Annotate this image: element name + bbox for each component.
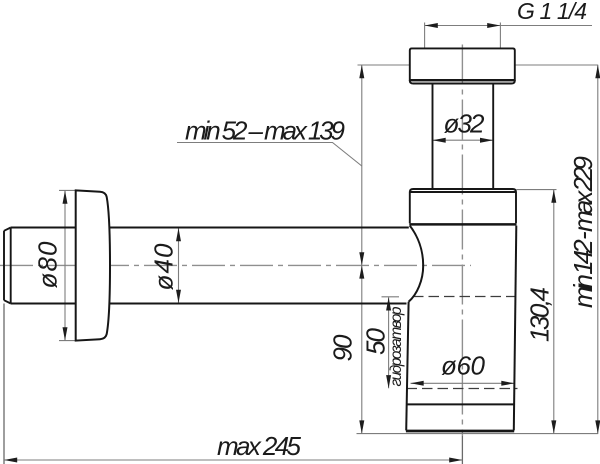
arrow o80 top [63,191,68,204]
dimension o60: line [411,382,515,384]
arrow max245 left [4,458,17,463]
arrow o32 left [433,138,446,143]
arrow G-dim left [425,23,438,28]
svg-text:130,4: 130,4 [525,287,555,342]
hidden inner tube bottom (dashed) [407,388,518,390]
dimension 130,4: extension line top [517,189,557,191]
flange bottom edge thick [409,223,516,226]
dimension 130,4: vertical line [553,190,555,434]
arrow min52 top [359,65,364,78]
hidden water level (dashed) [413,296,516,298]
dimension o80: extension ticks [59,189,76,191]
svg-text:min 142 - max 229: min 142 - max 229 [568,156,598,308]
wall flange (escutcheon) [76,190,110,340]
cup flange [410,189,516,223]
svg-text:90: 90 [328,334,358,362]
arrow max245 right [449,458,462,463]
cup left wall [406,302,408,431]
svg-text:G 1 1/4: G 1 1/4 [517,0,587,24]
svg-text:ø32: ø32 [444,109,486,139]
tube end face [4,228,11,304]
svg-text:ø60: ø60 [441,351,486,381]
dimension min52-max139 / 90: vertical line [361,65,363,434]
arrow min142 top [595,65,600,78]
nut bottom lip [410,80,515,83]
svg-text:min 52 – max 139: min 52 – max 139 [185,116,345,146]
extension line bottom (cup underside) [357,433,599,435]
cup body [406,226,516,431]
tube top edge [11,227,409,229]
tube-to-cup fillet arc [409,226,424,302]
arrow min52 bottom (at axis) [359,252,364,265]
arrow o32 right [480,138,493,143]
dimension G 1 1/4: dimension line [425,25,592,27]
cup right wall [514,226,517,431]
arrow o60 right [501,381,514,386]
flange body [410,192,516,223]
nut bottom edge thick [410,79,515,81]
arrow min142 bottom [595,420,600,433]
svg-text:ø40: ø40 [149,243,179,291]
arrow 90 top (at axis) [359,265,364,278]
arrow 50 bottom [386,375,391,388]
arrow o40 bottom [176,290,181,303]
tube (inlet pipe) outline [4,228,409,304]
leader shelf min52-max139 [177,143,362,167]
dimension o80: line [64,191,66,341]
dimension 50: vertical line [388,297,390,388]
arrow 130,4 bottom [551,420,556,433]
dimension extension right at thread level [515,64,598,66]
flange top lip [410,189,516,192]
dimension min142-max229: vertical line [597,65,599,434]
dimension 50: extension tick top [382,296,400,298]
svg-text:гидрозатвор: гидрозатвор [388,306,405,386]
centerline horizontal (tube axis) [0,264,471,266]
arrow 50 top [386,297,391,310]
arrow o80 bottom [63,327,68,340]
arrow G-dim right [487,23,500,28]
svg-text:50: 50 [361,327,391,355]
arrow 130,4 top [551,190,556,203]
svg-text:ø80: ø80 [33,241,63,289]
arrow 90 bottom [359,420,364,433]
extension: tube end down to max245 [3,304,5,464]
dimension min52-max139: extension line left [358,64,410,66]
dimension max245: line [4,459,462,461]
dimension o32: line [433,139,494,141]
cup bottom edge thick [406,430,514,433]
arrow o40 top [176,228,181,241]
svg-text:max 245: max 245 [217,431,302,461]
dimension o40: line [178,228,180,303]
extension: body centerline continued to bottom [461,436,463,464]
arrow o60 left [411,381,424,386]
cup bottom seam [407,403,515,405]
top nut [410,48,515,83]
tube bottom edge [11,303,407,305]
tailpipe o32 [433,84,494,190]
centerline vertical (body axis) [461,45,463,437]
